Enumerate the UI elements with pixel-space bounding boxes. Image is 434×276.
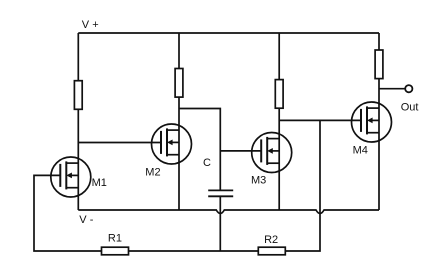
wire: M1 drain node to M2 gate [78,142,161,144]
wire: capacitor bottom lead to bottom net (crosses V- rail, no connection) [219,196,221,251]
wire: M3 drain/source column (V+ rail to V- rail) [278,33,280,210]
resistor (M2 drain load, unlabeled) [175,69,183,98]
svg-text:R1: R1 [108,232,122,244]
svg-text:M3: M3 [251,174,266,186]
wire: M2 drain/source column (V+ rail to V- rail) [178,33,180,210]
wire: R2 to feedback riser up to M4 gate line (crosses V- rail, no connection) [285,120,320,251]
svg-text:V -: V - [79,214,93,226]
wire: M2 drain node to capacitor top [179,109,220,191]
resistor R2 [258,247,285,255]
svg-text:M4: M4 [353,144,368,156]
resistor R1 [102,247,129,255]
resistor (M1 drain load, unlabeled) [74,81,82,110]
resistor (M4 drain load, unlabeled) [375,50,383,79]
transistor M2 [152,124,192,164]
wire: V+ top rail [78,32,379,34]
wire: M3 drain node to M4 gate [279,119,361,121]
capacitor C [208,190,233,196]
transistor M4 [352,102,392,142]
svg-text:R2: R2 [264,234,278,246]
svg-text:C: C [203,157,211,169]
wire: bottom net between R1 and R2 [129,250,259,252]
svg-text:M2: M2 [145,167,160,179]
wire: M3 gate to capacitor top node [220,150,261,152]
wire: M1 gate to bottom feedback net [34,175,102,251]
wire: output stub [379,88,405,90]
transistor M1 [51,157,91,197]
wire: M4 drain/source column (V+ rail to V- rail) [378,33,380,210]
svg-text:Out: Out [401,101,419,113]
terminal Out (open circle) [405,85,412,92]
svg-text:M1: M1 [92,177,107,189]
wire: M1 drain/source column (V+ rail to V- rail) [77,33,79,210]
transistor M3 [252,133,292,173]
svg-text:V +: V + [82,19,99,31]
resistor (M3 drain load, unlabeled) [275,80,283,109]
wire: V- bottom rail with two crossover hops [78,210,379,214]
